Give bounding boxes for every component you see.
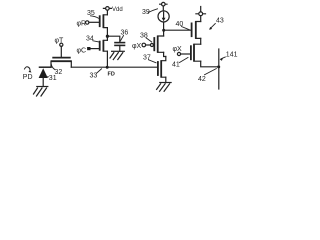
label 40 — [176, 21, 184, 28]
transistor Q40 — [192, 22, 201, 39]
label 37 — [143, 55, 151, 62]
svg-text:φX: φX — [132, 43, 142, 50]
wire node B to Q40 gate — [164, 29, 192, 31]
leader 40 — [182, 27, 191, 31]
wire: FD row — [71, 66, 158, 68]
leader 33 — [97, 69, 102, 73]
leader 39 — [148, 9, 157, 13]
label phi T — [55, 38, 65, 45]
label phi X (38) — [132, 43, 142, 50]
svg-text:43: 43 — [216, 18, 224, 25]
wire Q38 to Q37 with jog — [164, 52, 166, 56]
gate lead and terminal of phi-T — [60, 43, 63, 57]
label 42 — [198, 76, 206, 83]
transistor Q38 (phi X) — [154, 36, 163, 52]
svg-text:φT: φT — [55, 38, 65, 45]
transistor Q35 (reset, phi R) — [100, 15, 108, 28]
wire Q34 source down to FD node — [106, 51, 108, 67]
column signal line 141 — [218, 49, 220, 89]
svg-text:31: 31 — [49, 75, 57, 82]
label 35 — [87, 10, 95, 17]
wire current source to node B — [163, 22, 165, 36]
output terminal above Q40 — [196, 7, 206, 22]
node junction dot to capacitor — [106, 35, 109, 38]
gate lead and terminal of phi C — [87, 47, 100, 50]
wire: diode cathode bar level — [40, 66, 52, 68]
current source I39 top terminal — [160, 2, 167, 10]
svg-text:φR: φR — [77, 21, 87, 28]
label 33 — [90, 72, 98, 79]
wire between Q35 and Q34 — [106, 28, 108, 41]
leader squiggle arrow from PD to photodiode — [25, 67, 32, 73]
node 42 junction dot — [217, 65, 220, 68]
ground under capacitor C36 — [110, 51, 124, 59]
svg-text:PD: PD — [23, 74, 33, 81]
leader 43 with arrowhead — [209, 24, 215, 30]
svg-text:φC: φC — [77, 47, 87, 54]
svg-text:42: 42 — [198, 76, 206, 83]
transistor Q32 channel bump — [51, 58, 71, 68]
wire Q41 source to column line — [201, 61, 219, 67]
leader 37 — [149, 60, 157, 63]
label 36 — [121, 30, 129, 37]
wire Q37 source to ground — [165, 77, 167, 82]
label PD — [23, 74, 33, 81]
svg-text:34: 34 — [86, 36, 94, 43]
leader 34 — [93, 41, 99, 42]
svg-text:φX: φX — [173, 46, 183, 53]
ground under photodiode — [34, 87, 48, 97]
leader 38 — [146, 38, 151, 42]
label 39 — [142, 9, 150, 16]
node 33 junction dot — [106, 66, 109, 69]
capacitor C36 — [115, 43, 125, 52]
svg-text:41: 41 — [172, 62, 180, 69]
leader 31 — [46, 76, 48, 78]
gate lead and terminal of phi X (41) — [177, 52, 191, 55]
Vdd terminal — [103, 7, 111, 15]
leader 32 — [51, 64, 55, 70]
svg-text:33: 33 — [90, 72, 98, 79]
label 38 — [140, 33, 148, 40]
current source I39 — [158, 11, 169, 22]
label 41 — [172, 62, 180, 69]
svg-text:32: 32 — [55, 69, 63, 76]
gate lead and terminal of phi R — [86, 21, 100, 24]
leader arrow 141 — [220, 57, 226, 61]
leader 36 — [120, 36, 123, 42]
svg-text:36: 36 — [121, 30, 129, 37]
transistor Q37 (amplifier) — [158, 57, 166, 78]
label 43 — [216, 18, 224, 25]
node B junction dot — [162, 29, 165, 32]
label Vdd — [112, 7, 123, 13]
label 32 — [55, 69, 63, 76]
transistor Q41 (phi X select) — [191, 44, 201, 61]
gate lead, terminal and bubble of phi X (38) — [142, 43, 153, 47]
photodiode D31 — [39, 68, 48, 86]
ground under Q37 — [157, 83, 172, 92]
wire Q40 source to Q41 drain — [200, 38, 202, 44]
label FD — [108, 72, 115, 78]
transistor Q34 (phi C) — [100, 40, 108, 51]
label phi R — [77, 21, 87, 28]
wire to capacitor C36 — [107, 36, 119, 42]
leader 42 — [205, 69, 217, 75]
label 34 — [86, 36, 94, 43]
label phi X (41) — [173, 46, 183, 53]
leader 41 — [180, 58, 189, 63]
svg-text:141: 141 — [226, 52, 238, 59]
svg-text:Vdd: Vdd — [112, 7, 123, 13]
leader 35 — [91, 16, 99, 18]
label phi C — [77, 47, 87, 54]
label 141 — [226, 52, 238, 59]
label 31 — [49, 75, 57, 82]
svg-text:FD: FD — [108, 72, 115, 78]
